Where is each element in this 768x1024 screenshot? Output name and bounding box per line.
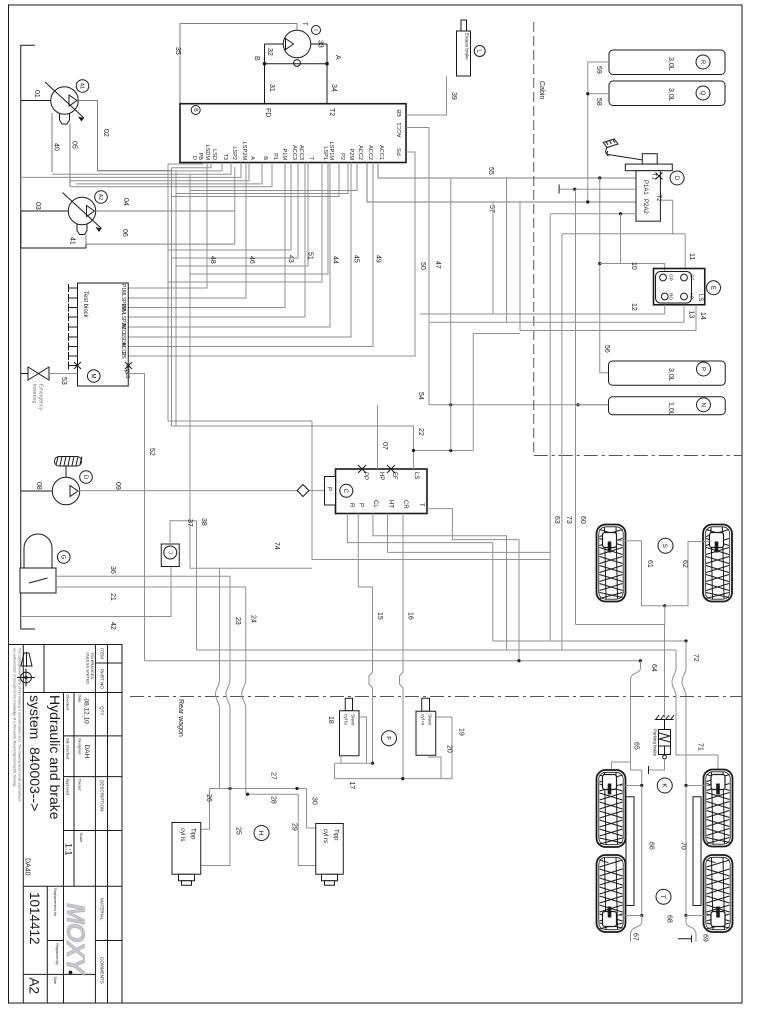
wire 60 feed to axle (576, 606, 665, 625)
wire 21 (56, 587, 246, 680)
wire 02 (78, 101, 171, 171)
axle label T (656, 889, 671, 904)
header column texts (100, 648, 105, 984)
svg-text:64: 64 (650, 664, 657, 672)
svg-text:17: 17 (348, 782, 355, 790)
wire 48 (128, 163, 216, 289)
svg-text:62: 62 (681, 560, 688, 568)
svg-text:50: 50 (419, 262, 426, 270)
wire 22 (172, 426, 474, 469)
svg-text:1:1: 1:1 (64, 843, 74, 856)
svg-text:ITEM: ITEM (100, 648, 105, 659)
svg-text:DA40: DA40 (24, 858, 31, 876)
svg-text:COMMENTS: COMMENTS (100, 957, 105, 984)
svg-text:63: 63 (553, 516, 560, 524)
front right brake actuator (710, 533, 724, 553)
svg-text:A: A (334, 55, 341, 60)
rear wagon boundary (130, 697, 742, 737)
wire P1A1 line (559, 185, 636, 194)
title block (9, 645, 123, 1004)
svg-text:29: 29 (291, 823, 298, 831)
svg-text:Scale: Scale (79, 833, 84, 843)
svg-text:T: T (659, 895, 666, 899)
svg-text:PART NO: PART NO (100, 669, 105, 689)
svg-text:57: 57 (488, 205, 495, 213)
staircase vertical 519 (518, 547, 520, 661)
svg-text:P: P (358, 503, 364, 507)
svg-text:ACC2: ACC2 (367, 145, 373, 160)
wire 52 (128, 374, 155, 661)
wire 06 (86, 235, 235, 245)
svg-text:K: K (660, 783, 667, 788)
svg-text:UNLESS STATED: UNLESS STATED (86, 652, 91, 684)
wire 58 (586, 92, 609, 106)
parking brake (649, 715, 675, 774)
wire 59 (588, 62, 609, 202)
wire 12 (420, 303, 665, 314)
wire 54 (417, 392, 609, 406)
brake disc right (693, 797, 701, 906)
emergency lowering valve (21, 367, 49, 411)
svg-text:HT: HT (388, 500, 394, 508)
svg-text:42: 42 (109, 622, 116, 630)
wire 34 (325, 44, 337, 104)
svg-text:Steer: Steer (350, 714, 356, 726)
svg-text:A2: A2 (27, 978, 42, 995)
wire 45 (128, 163, 359, 338)
svg-text:21: 21 (109, 593, 116, 601)
svg-text:65: 65 (633, 742, 640, 750)
svg-text:PS: PS (120, 352, 126, 359)
svg-text:37: 37 (186, 519, 193, 527)
wire 49 (128, 163, 381, 347)
rear tire left back (597, 855, 626, 932)
wire 71 collector (197, 649, 677, 651)
wire 67 (631, 916, 642, 942)
wire 50 (PS) (128, 152, 426, 356)
svg-text:ACC2: ACC2 (357, 145, 363, 160)
svg-text:cyl ls: cyl ls (179, 828, 185, 841)
svg-text:LSP1: LSP1 (322, 146, 328, 160)
wire 66 group (618, 784, 655, 917)
svg-text:74: 74 (273, 542, 280, 550)
wire 61 (617, 541, 667, 608)
wire 22 link vertical (472, 334, 474, 451)
cylinder label F (382, 731, 397, 746)
wire 17 (335, 717, 453, 789)
wire 57 (367, 163, 636, 213)
svg-text:A: A (249, 156, 255, 160)
svg-text:38: 38 (200, 518, 207, 526)
front axle tire left (597, 525, 626, 602)
wire 20 (429, 745, 453, 779)
svg-text:68: 68 (666, 915, 673, 923)
wire 39 (406, 76, 457, 115)
svg-text:28: 28 (270, 796, 277, 804)
cabin boundary (534, 22, 742, 456)
wire 30 (307, 789, 318, 829)
svg-text:Steer: Steer (427, 714, 433, 726)
svg-text:Date: Date (78, 695, 83, 703)
wire 05 (69, 124, 71, 186)
svg-text:T2: T2 (655, 195, 661, 203)
wire 23 lower (201, 617, 242, 866)
svg-text:ACC3: ACC3 (298, 145, 304, 160)
svg-text:Parking brake: Parking brake (653, 729, 658, 757)
wire 56 (598, 178, 610, 373)
svg-text:lowering: lowering (31, 384, 37, 403)
front left brake actuator (603, 533, 617, 553)
svg-text:30: 30 (311, 797, 318, 805)
svg-text:D: D (673, 176, 679, 181)
accumulator Q (609, 81, 725, 106)
svg-text:33: 33 (317, 40, 324, 48)
svg-text:LSP2M: LSP2M (241, 142, 247, 161)
svg-text:Rear wagon: Rear wagon (177, 699, 184, 737)
tipp wires 28 (246, 793, 298, 804)
C staircase: wire R port (347, 514, 492, 642)
wire 33 / A port (311, 40, 341, 60)
svg-text:HP: HP (378, 472, 384, 480)
svg-text:70: 70 (680, 842, 687, 850)
mid vertical 493 (12 feed) (492, 202, 494, 314)
svg-text:Size: Size (53, 977, 58, 985)
svg-text:P2M: P2M (348, 148, 354, 160)
wire 01 (21, 100, 51, 102)
svg-text:OP: OP (669, 274, 674, 281)
svg-text:R: R (699, 60, 705, 65)
junction dots on 55/57 (598, 176, 601, 179)
wire 09 (80, 482, 325, 491)
svg-text:Tipp: Tipp (190, 828, 196, 840)
wire 42 (21, 567, 171, 630)
accumulator P (609, 361, 726, 385)
svg-text:P1: P1 (272, 153, 278, 160)
svg-text:3,0L: 3,0L (667, 88, 674, 102)
wire 64/65 drop (612, 661, 642, 786)
wire 73 vertical (562, 234, 572, 650)
svg-text:J: J (166, 551, 172, 554)
steer ls wires (335, 717, 367, 779)
svg-text:61: 61 (646, 560, 653, 568)
svg-text:Q: Q (699, 91, 705, 96)
block B bottom port labels (191, 142, 384, 161)
axle label S (658, 538, 673, 553)
svg-text:The copyright/ownership of thi: The copyright/ownership of this drawing … (18, 648, 22, 801)
svg-text:Replaced by: Replaced by (55, 943, 60, 965)
exhaust brake (457, 20, 486, 76)
block B right port labels (397, 109, 403, 156)
tank line (21, 45, 35, 629)
wire 72 drop (682, 641, 686, 786)
svg-text:T: T (301, 22, 307, 26)
svg-text:B: B (253, 56, 260, 61)
svg-text:B: B (192, 108, 198, 112)
svg-text:P: P (699, 367, 705, 371)
svg-text:Test block: Test block (82, 291, 88, 319)
wire 62 (665, 542, 710, 606)
svg-text:3,0L: 3,0L (667, 57, 674, 71)
svg-text:23: 23 (234, 617, 241, 625)
tipp cyl rs (316, 824, 344, 886)
mid vertical 450.75 (450, 178, 452, 451)
wire 08 (21, 482, 53, 491)
svg-text:26: 26 (205, 794, 212, 802)
svg-text:D: D (191, 156, 197, 160)
svg-text:P1M: P1M (281, 148, 287, 160)
accumulator R (609, 50, 725, 75)
wire 35 (180, 24, 297, 104)
pump I (283, 22, 320, 66)
wire 11 (673, 234, 695, 269)
svg-text:52: 52 (148, 448, 155, 456)
wire 31 (263, 44, 327, 104)
svg-text:41: 41 (69, 237, 76, 245)
svg-text:QTY: QTY (100, 706, 105, 715)
wire 47 (ACC) (406, 128, 441, 405)
svg-text:N: N (699, 403, 705, 407)
svg-text:T: T (308, 157, 314, 161)
svg-text:72: 72 (692, 654, 699, 662)
svg-text:Emergency: Emergency (38, 384, 44, 411)
svg-text:EB: EB (397, 109, 403, 117)
pressure switch G (20, 534, 70, 593)
axle label K (657, 778, 672, 793)
svg-text:20: 20 (446, 745, 453, 753)
svg-text:Tipp: Tipp (333, 829, 339, 841)
svg-text:H: H (257, 831, 264, 836)
vertical 620.5 (620, 214, 622, 264)
svg-text:07: 07 (381, 442, 388, 450)
svg-text:G: G (60, 555, 66, 560)
svg-text:09: 09 (114, 482, 121, 490)
steer cyl ls (327, 698, 359, 756)
projection cone symbol (21, 652, 32, 667)
svg-text:M: M (90, 374, 96, 379)
svg-text:27: 27 (270, 772, 277, 780)
svg-text:06: 06 (121, 229, 128, 237)
rear tire right front (704, 770, 733, 847)
pedal T2 loop wire (562, 200, 673, 234)
pressure switch J (161, 544, 179, 567)
mid vertical 506.5 (13 feed) (506, 178, 508, 322)
svg-text:19: 19 (458, 728, 465, 736)
C staircase: wire P port to 15 (358, 514, 372, 588)
svg-text:15: 15 (376, 612, 383, 620)
control block B (180, 104, 406, 163)
C T-port wire (427, 509, 519, 547)
wire 70 group (680, 784, 711, 917)
svg-text:EF: EF (391, 472, 397, 480)
svg-text:LO: LO (690, 293, 695, 300)
svg-text:P: P (122, 370, 128, 374)
svg-text:C: C (342, 489, 348, 494)
brake pedal unit (603, 139, 684, 221)
wire 36 (56, 566, 230, 680)
svg-text:LSDM: LSDM (204, 144, 210, 160)
pump A2 (63, 191, 108, 235)
svg-text:T2: T2 (328, 108, 335, 116)
wire 72 collector (493, 639, 699, 661)
valve block E (654, 269, 721, 305)
svg-text:49: 49 (375, 255, 382, 263)
wire 10 (600, 262, 665, 272)
wire 41 (21, 235, 86, 249)
svg-text:71: 71 (697, 743, 704, 751)
svg-text:58: 58 (595, 98, 602, 106)
pump A1 (45, 80, 89, 124)
wire 14 (520, 305, 706, 331)
quick coupling diamond (297, 485, 309, 497)
svg-text:PP: PP (362, 472, 368, 480)
svg-text:LS: LS (697, 294, 703, 301)
svg-text:54: 54 (417, 392, 424, 400)
tipp cyl ls (172, 823, 201, 886)
svg-text:LSP2: LSP2 (231, 146, 237, 160)
wire 74 feed (168, 420, 312, 422)
wire 38 (197, 518, 208, 650)
svg-text:03: 03 (34, 202, 41, 210)
parking brake feed (664, 625, 666, 719)
svg-text:our authorization or brought t: our authorization or brought to the know… (13, 648, 17, 787)
wire 07 (378, 405, 389, 469)
svg-text:PB: PB (197, 153, 203, 161)
svg-text:01: 01 (33, 90, 40, 98)
wire 64 collector (145, 659, 658, 672)
brake disc left (626, 797, 634, 906)
wire link E band (473, 333, 520, 335)
wire 43 (128, 163, 294, 308)
svg-text:P: P (326, 487, 332, 491)
svg-text:Cabin: Cabin (538, 81, 545, 99)
accumulator N (609, 397, 726, 416)
svg-text:E: E (709, 286, 715, 290)
wire 55 (378, 163, 636, 179)
svg-text:46: 46 (248, 256, 255, 264)
tipp wires 27 (210, 772, 307, 790)
wire 32 / B port (253, 44, 283, 61)
wire 24 lower (242, 615, 257, 794)
svg-text:CR: CR (402, 500, 408, 509)
wire 04 trunk (234, 167, 236, 244)
svg-text:10: 10 (630, 262, 637, 270)
svg-text:D: D (82, 475, 88, 480)
rear brake actuators (603, 775, 617, 795)
rear tire left front (597, 770, 626, 847)
svg-text:16: 16 (407, 612, 414, 620)
svg-text:02: 02 (102, 129, 109, 137)
svg-text:47: 47 (434, 261, 441, 269)
svg-text:P2: P2 (339, 153, 345, 160)
C staircase: wire CL port (373, 514, 507, 651)
wire cascade below block B (21, 163, 272, 187)
svg-text:Designed: Designed (78, 738, 83, 754)
svg-text:RO: RO (669, 293, 674, 300)
front axle tire right (703, 525, 732, 602)
svg-text:48: 48 (209, 256, 216, 264)
svg-text:11: 11 (688, 253, 695, 260)
svg-text:ACC3: ACC3 (291, 145, 297, 160)
svg-text:A1: A1 (79, 83, 85, 89)
wire 44 (128, 163, 338, 328)
svg-text:MOXY: MOXY (61, 903, 89, 976)
N feed from 54 (578, 404, 609, 406)
wire 37 (170, 519, 197, 544)
wire 29 (291, 794, 316, 865)
svg-text:ACC1: ACC1 (397, 123, 403, 138)
svg-text:39: 39 (450, 92, 457, 100)
svg-text:cyl ls: cyl ls (343, 714, 349, 725)
svg-text:DESCRIPTION: DESCRIPTION (100, 780, 105, 811)
svg-text:1,0L: 1,0L (667, 402, 674, 416)
wire 71 drop (672, 650, 718, 775)
wire 40 (51, 113, 53, 172)
mid vertical 520 (14 feed) (519, 202, 521, 331)
svg-text:36: 36 (109, 566, 116, 574)
wire P2A2 line (550, 212, 636, 215)
svg-text:I: I (312, 29, 318, 30)
svg-text:cyl rs: cyl rs (420, 714, 426, 726)
svg-text:73: 73 (565, 516, 572, 524)
svg-text:18: 18 (327, 716, 334, 724)
svg-text:system 840003-->: system 840003--> (27, 695, 43, 811)
test block M (69, 283, 133, 386)
svg-text:Exaust brake: Exaust brake (465, 33, 470, 60)
wire 46 (128, 163, 255, 299)
svg-text:LS: LS (413, 472, 419, 479)
svg-text:05: 05 (71, 141, 78, 149)
svg-text:T3: T3 (222, 153, 228, 160)
svg-text:P2A2: P2A2 (642, 199, 648, 214)
svg-text:31: 31 (268, 84, 275, 92)
svg-text:22: 22 (417, 428, 424, 436)
svg-text:69: 69 (702, 934, 709, 942)
svg-text:08.12.10: 08.12.10 (83, 699, 90, 725)
svg-text:Stk checked: Stk checked (66, 738, 71, 759)
svg-text:Checked: Checked (66, 695, 71, 710)
date / signature cells (53, 695, 84, 985)
svg-text:3,0L: 3,0L (667, 368, 674, 382)
svg-text:B: B (262, 156, 268, 160)
svg-text:LSP1M: LSP1M (328, 142, 334, 161)
wire 26 feed (190, 567, 312, 569)
svg-text:Approved: Approved (66, 779, 71, 796)
svg-text:40: 40 (53, 143, 60, 151)
wire 13 (430, 305, 695, 323)
wire 04 (96, 210, 235, 212)
cylinder label H (254, 826, 269, 841)
svg-text:FD: FD (264, 108, 271, 117)
wire 74 (273, 421, 550, 560)
svg-text:25: 25 (235, 827, 242, 835)
svg-text:DAH: DAH (83, 745, 90, 759)
svg-text:LSD: LSD (211, 149, 217, 160)
svg-text:P1M: P1M (120, 284, 126, 294)
svg-text:56: 56 (603, 345, 610, 353)
svg-text:S: S (661, 544, 668, 549)
C staircase: wire HT port (388, 514, 551, 553)
wire trunk verticals left of M (168, 164, 190, 568)
svg-text:MATERIAL: MATERIAL (100, 898, 105, 921)
svg-text:35: 35 (174, 47, 181, 55)
svg-text:67: 67 (632, 933, 639, 941)
svg-text:PS: PS (397, 148, 403, 156)
svg-text:Replacement for: Replacement for (53, 888, 58, 917)
svg-text:R: R (348, 503, 354, 508)
wire 69 (678, 916, 709, 943)
svg-text:66: 66 (648, 842, 655, 850)
svg-text:A2: A2 (97, 194, 103, 200)
